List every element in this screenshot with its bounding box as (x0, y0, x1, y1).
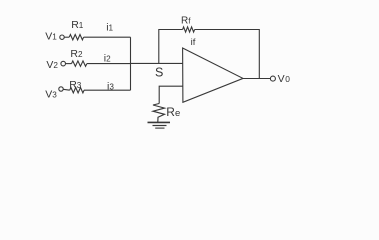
svg-text:R3: R3 (69, 79, 82, 91)
terminal V0 (270, 76, 275, 81)
resistor Rf (183, 27, 195, 32)
wire feedback to output (195, 30, 260, 79)
wire V2 lead (66, 63, 72, 65)
svg-text:V1: V1 (45, 30, 57, 42)
wire V3 lead (63, 88, 69, 91)
svg-text:i1: i1 (106, 21, 113, 33)
wire feedback tap from S up to Rf (159, 30, 183, 64)
bus joining i1 i2 i3 (130, 37, 132, 90)
wire output (243, 78, 270, 80)
wire i2 (87, 63, 131, 65)
resistor Re (153, 104, 165, 123)
svg-text:V0: V0 (278, 73, 291, 85)
svg-text:R2: R2 (70, 48, 83, 60)
svg-text:R1: R1 (71, 19, 84, 31)
wire non-inverting input (159, 86, 182, 103)
wire i1 (84, 36, 131, 38)
resistor R1 (69, 35, 83, 40)
wire node S to op-amp inverting input (131, 62, 183, 64)
svg-text:S: S (155, 66, 163, 80)
svg-text:if: if (191, 37, 196, 48)
wire V1 lead (64, 36, 69, 38)
op-amp U1 (183, 48, 243, 102)
svg-text:i3: i3 (107, 80, 114, 92)
terminal V1 (60, 35, 64, 39)
terminal V2 (61, 61, 66, 66)
svg-text:i2: i2 (104, 52, 111, 64)
wire i3 (84, 89, 131, 91)
resistor R2 (72, 61, 87, 66)
svg-text:Re: Re (166, 105, 180, 119)
terminal V3 (59, 87, 63, 91)
svg-text:Rf: Rf (181, 15, 191, 26)
ground (148, 121, 171, 123)
resistor R3 (70, 88, 84, 93)
svg-text:V2: V2 (46, 59, 58, 71)
svg-text:V3: V3 (45, 88, 57, 100)
